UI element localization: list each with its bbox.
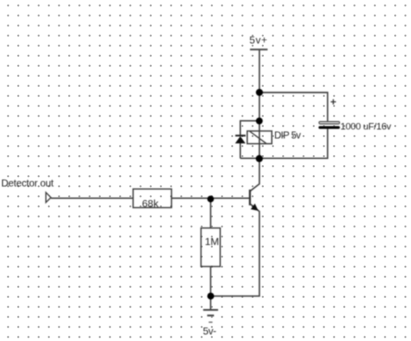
svg-text:1M: 1M <box>205 237 219 248</box>
svg-text:5v+: 5v+ <box>249 36 268 47</box>
svg-text:1000 uF/16v: 1000 uF/16v <box>340 121 391 132</box>
svg-text:68k: 68k <box>142 199 159 210</box>
svg-text:Detector out: Detector out <box>1 178 54 189</box>
svg-text:5v-: 5v- <box>203 327 216 338</box>
svg-text:DIP 5v: DIP 5v <box>274 130 301 141</box>
